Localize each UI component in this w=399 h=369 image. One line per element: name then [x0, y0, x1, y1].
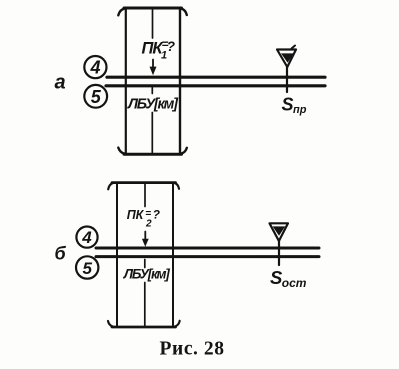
svg-text:?: ?	[153, 207, 161, 221]
svg-text:4: 4	[89, 57, 100, 77]
svg-text:пр: пр	[293, 104, 307, 116]
svg-text:Рис. 28: Рис. 28	[160, 339, 225, 360]
svg-text:ПК: ПК	[127, 208, 145, 222]
svg-text:4: 4	[81, 228, 92, 247]
svg-text:=: =	[145, 209, 151, 220]
svg-text:2: 2	[145, 218, 152, 229]
svg-text:б: б	[55, 244, 67, 264]
svg-text:?: ?	[167, 39, 175, 54]
svg-text:S: S	[282, 95, 294, 115]
svg-text:ЛБУ[км]: ЛБУ[км]	[127, 96, 179, 112]
svg-text:ЛБУ[км]: ЛБУ[км]	[123, 266, 171, 281]
svg-text:5: 5	[82, 259, 92, 278]
svg-text:а: а	[55, 72, 66, 94]
svg-text:5: 5	[91, 87, 102, 107]
svg-text:ост: ост	[282, 276, 307, 290]
